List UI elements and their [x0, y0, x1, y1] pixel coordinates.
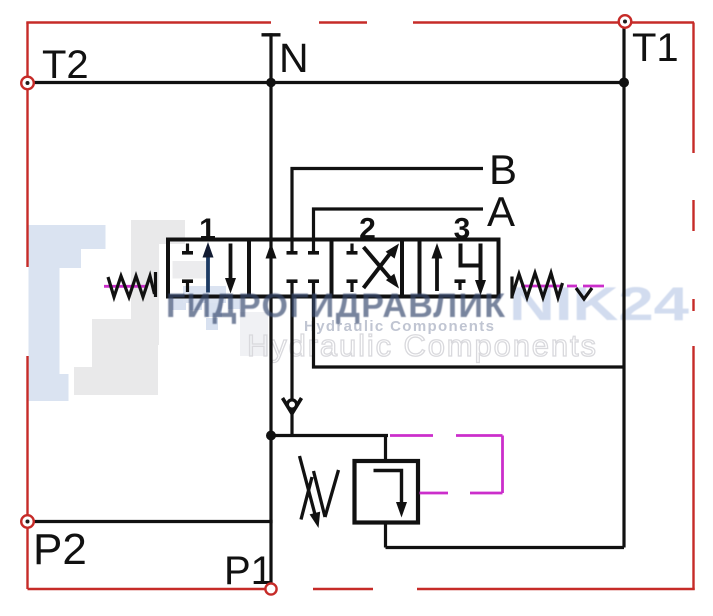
svg-text:P2: P2: [33, 525, 87, 574]
svg-text:B: B: [489, 146, 517, 193]
svg-text:A: A: [487, 188, 515, 235]
svg-text:T2: T2: [42, 43, 89, 87]
svg-text:N: N: [279, 35, 309, 81]
svg-text:2: 2: [359, 213, 376, 246]
svg-text:1: 1: [199, 213, 216, 246]
svg-text:T1: T1: [632, 26, 679, 70]
svg-text:ГИДРОГИДРАВЛИК: ГИДРОГИДРАВЛИК: [166, 287, 505, 325]
svg-text:3: 3: [454, 213, 471, 246]
